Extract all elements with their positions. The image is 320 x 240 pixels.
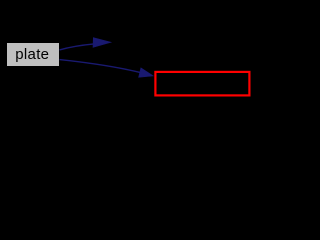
svg-text:plate: plate [15, 46, 49, 63]
